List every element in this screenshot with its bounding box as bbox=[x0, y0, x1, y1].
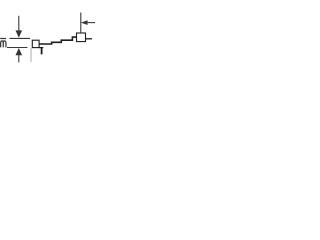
stub pin below box B1 bbox=[41, 48, 43, 55]
dimension arrow left (head) bbox=[81, 20, 88, 25]
wire staircase B1 to B2 bbox=[39, 37, 76, 44]
dimension text 3 (rotated, spine bar) bbox=[0, 38, 6, 40]
stub bar below box B1 bbox=[39, 47, 43, 49]
centerline below box B1 (light) bbox=[30, 48, 32, 62]
wire stub right of B2 bbox=[86, 38, 93, 40]
extension line bottom bbox=[7, 47, 27, 49]
dimension arrow up (head) bbox=[16, 48, 23, 55]
background bbox=[0, 0, 95, 65]
dimension arrow down (head) bbox=[16, 30, 23, 37]
dimension line right bbox=[88, 22, 95, 24]
dimension arrow up (stem) bbox=[18, 55, 20, 62]
extension line right (vertical) bbox=[80, 13, 82, 34]
dimension arrow down (stem) bbox=[18, 16, 20, 31]
node box B2 bbox=[77, 33, 86, 42]
node box B1 bbox=[32, 40, 39, 47]
extension line top bbox=[9, 37, 30, 39]
dimension text 3 (rotated, bowls) bbox=[1, 41, 6, 48]
